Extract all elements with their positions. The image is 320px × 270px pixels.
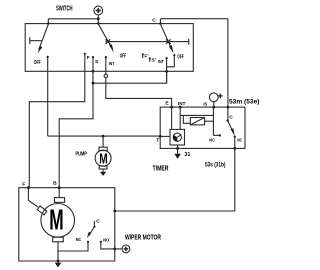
wire T into timer motor	[160, 135, 170, 137]
svg-text:WIPER MOTOR: WIPER MOTOR	[125, 234, 161, 241]
park switch arm	[89, 227, 95, 236]
wire 53m drop to pivot	[227, 107, 229, 120]
svg-text:M: M	[49, 205, 63, 237]
wire bus B	[160, 18, 228, 20]
wire pump stem	[102, 136, 104, 147]
wire coil feed	[183, 115, 190, 123]
svg-text:T: T	[156, 138, 159, 144]
node S junction	[92, 82, 95, 85]
node 53s terminal	[233, 147, 236, 150]
svg-text:INT: INT	[109, 61, 115, 67]
post INT group3	[166, 58, 168, 67]
switch arm 2	[99, 24, 112, 48]
wire battery stem	[97, 15, 99, 24]
wire to battery	[115, 248, 122, 250]
wire S to INT3 column	[93, 71, 167, 83]
post S group2	[92, 57, 94, 71]
node B terminal	[58, 186, 61, 189]
brush cap top	[54, 198, 64, 203]
svg-text:F': F'	[144, 54, 148, 60]
X mark on arm3	[166, 39, 171, 44]
switch arm 3	[161, 24, 172, 49]
svg-text:IS: IS	[203, 101, 207, 107]
X mark on arm2	[106, 39, 111, 44]
svg-text:C: C	[152, 18, 156, 24]
svg-text:53s (31b): 53s (31b)	[205, 162, 226, 168]
svg-text:OFF: OFF	[177, 55, 184, 61]
node pump tap	[102, 135, 105, 138]
svg-text:F: F	[87, 55, 90, 61]
svg-text:PUMP: PUMP	[76, 152, 88, 158]
wire B stem	[58, 188, 60, 198]
svg-text:NC: NC	[237, 137, 242, 143]
timer motor symbol	[173, 133, 181, 141]
node 53m terminal	[227, 106, 230, 109]
wire bus A	[48, 18, 98, 20]
park switch C post	[93, 221, 95, 227]
wire S down to B feed	[59, 83, 93, 188]
wire INT3 down through box edge	[166, 67, 168, 83]
svg-text:31: 31	[184, 152, 190, 158]
wire IS battery stem	[213, 102, 215, 107]
svg-text:S': S'	[151, 57, 155, 63]
node NO on box edge	[113, 248, 116, 251]
tick S' group3	[149, 58, 151, 62]
svg-text:NC: NC	[76, 237, 82, 243]
brush tilted	[37, 206, 47, 215]
svg-text:NO: NO	[103, 237, 109, 243]
park NO post	[101, 242, 115, 249]
svg-text:OFF: OFF	[120, 54, 127, 60]
wire coil right to IS	[205, 120, 214, 122]
node F terminal	[27, 186, 30, 189]
battery B+ top	[94, 6, 103, 15]
svg-text:NC: NC	[209, 137, 215, 143]
wire INT rail to IS column	[180, 114, 213, 116]
node arm2 pivot	[97, 22, 99, 24]
switch arm 1	[39, 24, 49, 49]
node 53s entry	[113, 210, 116, 213]
contact bar arm1	[30, 37, 42, 44]
timer NC contact right post	[234, 137, 236, 149]
timer box	[160, 107, 245, 148]
wire 53s to wiper box	[115, 148, 235, 211]
battery B+ right	[209, 93, 218, 102]
node motor on ground bus	[57, 260, 60, 263]
node bus A joint	[97, 17, 100, 20]
svg-text:SWITCH: SWITCH	[56, 5, 73, 12]
wire INT post down	[105, 71, 107, 74]
pump ground	[102, 169, 104, 172]
connector circle on INT wire	[104, 74, 107, 77]
post OFF1	[47, 57, 49, 71]
brush cap bottom	[53, 237, 64, 242]
wire timer motor to ground	[177, 145, 179, 148]
wire OFF1 to pump rail	[47, 71, 49, 136]
svg-text:OFF: OFF	[34, 60, 41, 66]
node T terminal	[159, 135, 162, 138]
relay coil	[190, 118, 204, 125]
node timer ground tap	[176, 147, 179, 150]
wire F rail	[29, 71, 85, 187]
wire IS down	[212, 107, 214, 135]
wire INT to timer E	[106, 78, 172, 108]
post F group2	[84, 54, 86, 72]
svg-text:M: M	[99, 150, 107, 167]
wire F to brush	[28, 188, 38, 207]
wiper enclosure	[19, 188, 115, 261]
wire arm1 pivot stub	[47, 19, 49, 24]
svg-text:C: C	[96, 219, 100, 225]
node IS terminal	[212, 106, 215, 109]
timer NC contact left	[213, 134, 219, 136]
post INT group2	[105, 57, 107, 71]
node E terminal	[170, 106, 173, 109]
node INT3 on box bottom	[165, 70, 168, 73]
post OFF3 with U link	[167, 55, 175, 67]
wire arm3 pivot stub	[159, 19, 161, 24]
wiper motor	[41, 204, 75, 238]
wire E drop to timer motor	[171, 107, 173, 129]
node arm1 pivot	[47, 22, 49, 24]
timer ground arrow	[177, 148, 179, 154]
pump motor	[99, 147, 107, 150]
switch box	[25, 24, 193, 72]
wire S post down	[92, 71, 94, 83]
node S on box bottom	[92, 70, 95, 73]
svg-text:INT: INT	[158, 59, 164, 65]
wire pump rail to timer T	[48, 135, 161, 137]
wire motor ground	[57, 242, 59, 263]
timer motor box	[170, 129, 185, 145]
node arm3 pivot	[159, 22, 161, 24]
tick F' group3	[142, 54, 144, 58]
svg-text:F: F	[22, 182, 25, 188]
node timer arm pivot	[227, 119, 229, 121]
common contact line with end tick	[106, 39, 189, 45]
wire INT drop to timer motor	[179, 107, 181, 129]
park NC post	[58, 242, 88, 251]
svg-text:TIMER: TIMER	[153, 166, 169, 173]
timer switch arm	[228, 121, 233, 133]
svg-text:53m (53e): 53m (53e)	[229, 98, 260, 105]
svg-text:C: C	[229, 115, 233, 121]
motor ground arrow	[55, 263, 62, 268]
svg-text:B: B	[53, 181, 57, 187]
node INT terminal	[179, 106, 182, 109]
battery B+ bottom	[122, 245, 130, 253]
svg-text:INT: INT	[178, 101, 186, 107]
wire 53m feed down right side	[227, 19, 229, 107]
